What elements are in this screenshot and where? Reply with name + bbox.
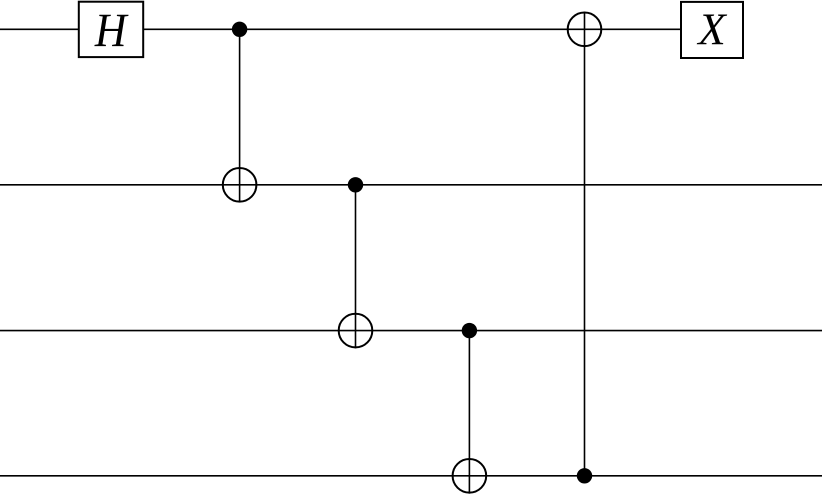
CNOT4 target circle on q0	[568, 13, 602, 47]
wire q0 segment left of H gate	[0, 28, 79, 30]
gate H box on q0	[79, 2, 143, 57]
CNOT3 control dot on q2	[462, 323, 477, 338]
CNOT1 target circle on q1	[223, 168, 257, 202]
CNOT2 vertical wire q1 to q2	[355, 185, 357, 349]
CNOT4 vertical wire q3 to q0	[584, 12, 586, 476]
gate H label	[94, 15, 128, 46]
wire q3	[0, 475, 822, 477]
wire q1	[0, 184, 822, 186]
CNOT3 target circle on q3	[453, 459, 487, 493]
gate X box on q0	[681, 2, 743, 58]
CNOT1 vertical wire q0 to q1	[239, 29, 241, 202]
CNOT1 control dot on q0	[232, 22, 247, 37]
CNOT2 target circle on q2	[339, 314, 373, 348]
CNOT2 control dot on q1	[348, 177, 363, 192]
svg-text:X: X	[696, 5, 727, 55]
wire q0 segment between H gate and X gate	[143, 28, 681, 30]
wire q2	[0, 330, 822, 332]
CNOT3 vertical wire q2 to q3	[468, 331, 470, 494]
CNOT4 control dot on q3	[577, 468, 592, 483]
